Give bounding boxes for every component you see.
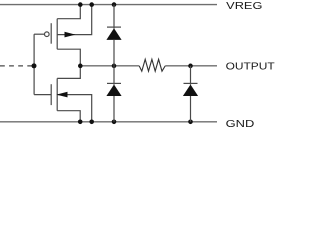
transistor Q2 (NMOS) [34, 66, 92, 122]
svg-text:OUTPUT: OUTPUT [226, 62, 276, 73]
GND rail wire [0, 121, 217, 123]
junction dot Q2 source at GND [78, 120, 83, 125]
junction dot input/gate [32, 63, 37, 68]
transistor Q1 (PMOS) [34, 5, 92, 66]
junction dot drain node at OUTPUT [78, 64, 83, 69]
diode D3 (GND to OUTPUT clamp, after resistor) [183, 66, 198, 122]
input dashed wire [0, 65, 32, 67]
gate bus wire (vertical) [33, 34, 35, 94]
junction dot resistor right / diode D3 at OUTPUT [188, 64, 193, 69]
svg-text:GND: GND [226, 119, 255, 130]
VREG rail wire [0, 4, 217, 6]
junction dot diode column at GND [112, 120, 117, 125]
OUTPUT rail wire (right of resistor) [165, 65, 217, 67]
resistor R1 [139, 59, 165, 71]
junction dot diode D3 at GND [188, 120, 193, 125]
diode D1 (OUTPUT to VREG clamp) [106, 5, 121, 66]
junction dot diode column at OUTPUT [112, 64, 117, 69]
junction dot Q2 body at GND [89, 120, 94, 125]
junction dot Q1 source at VREG [78, 2, 83, 7]
svg-text:VREG: VREG [226, 1, 262, 12]
junction dot diode column at VREG [112, 2, 117, 7]
junction dot Q1 body at VREG [89, 2, 94, 7]
OUTPUT wire (drain node to resistor) [80, 65, 139, 67]
diode D2 (GND to OUTPUT clamp) [106, 66, 121, 122]
